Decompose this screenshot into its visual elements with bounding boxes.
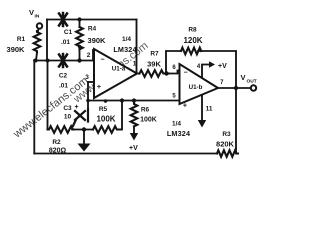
resistor R6: [131, 101, 138, 127]
svg-text:U1-a: U1-a: [112, 66, 126, 73]
node Vin terminal: [37, 23, 42, 28]
wire R5 riser: [121, 101, 123, 130]
junction dot ground node: [82, 127, 86, 131]
svg-text:R2: R2: [52, 139, 61, 146]
svg-text:R8: R8: [188, 27, 197, 34]
junction dot R5 riser top: [120, 98, 124, 102]
svg-text:V: V: [241, 73, 246, 82]
wire R1 bottom to node A: [36, 53, 37, 61]
svg-text:+: +: [97, 82, 102, 91]
svg-text:R5: R5: [99, 106, 108, 113]
svg-text:39K: 39K: [147, 60, 161, 69]
svg-text:LM324: LM324: [167, 129, 190, 138]
resistor R1: [34, 31, 41, 53]
svg-text:C2: C2: [59, 73, 68, 80]
wire Vin terminal to R1: [37, 29, 39, 31]
wire pin3 riser: [87, 82, 89, 116]
capacitor C3: [73, 110, 88, 127]
svg-text:IN: IN: [35, 14, 40, 20]
junction dot R6 top: [132, 98, 136, 102]
svg-text:R4: R4: [88, 26, 97, 33]
wire top horizontal: [47, 19, 137, 21]
junction dot bias wire left: [86, 99, 90, 103]
wire bias rail: [88, 100, 180, 102]
svg-text:+V: +V: [218, 63, 227, 70]
wire R8 right to output riser: [198, 51, 236, 88]
svg-text:390K: 390K: [7, 45, 26, 54]
svg-text:100K: 100K: [96, 115, 115, 124]
capacitor C2: [59, 54, 67, 67]
wire R6 bottom stem: [133, 127, 135, 135]
resistor R2: [48, 126, 75, 133]
junction dot R4 lead blob: [78, 45, 81, 48]
capacitor C1: [59, 13, 67, 26]
wire R4 top lead: [79, 20, 81, 28]
resistor R5: [93, 126, 121, 133]
wire top-loop left vertical: [46, 20, 48, 61]
wire left long vertical (node A to bottom rail): [33, 61, 35, 154]
node A junction dot left: [34, 59, 38, 63]
node A junction dot right: [46, 59, 50, 63]
svg-text:C3: C3: [63, 105, 72, 112]
arrow to +V (U1-b pin4): [209, 61, 215, 67]
wire pin11 stem: [201, 96, 203, 121]
svg-text:+: +: [183, 101, 188, 110]
junction dot output node: [234, 86, 238, 90]
node Vout terminal: [251, 85, 256, 90]
svg-text:100K: 100K: [140, 117, 157, 124]
svg-text:R1: R1: [17, 36, 26, 43]
svg-text:+V: +V: [129, 145, 138, 152]
svg-text:820Ω: 820Ω: [49, 148, 67, 155]
resistor R7: [140, 70, 169, 77]
wire U1-b output: [218, 87, 251, 89]
ground arrow stem: [83, 130, 85, 145]
wire top-loop right vertical (feedback C1 to output): [136, 20, 138, 73]
op-amp U1-b: [180, 64, 219, 104]
svg-text:OUT: OUT: [247, 79, 257, 85]
wire R2 right to ground junction: [72, 129, 93, 131]
wire node A horizontal: [34, 60, 93, 62]
arrow -V (pin11): [198, 120, 206, 128]
wire R8 riser: [166, 51, 181, 74]
wire U1-b +V stub: [202, 65, 210, 78]
svg-text:R6: R6: [141, 107, 150, 114]
svg-text:U1-b: U1-b: [189, 84, 203, 91]
wire junction to pin6 with jog: [167, 71, 181, 74]
svg-text:11: 11: [206, 106, 213, 113]
resistor R3: [217, 150, 238, 156]
svg-text:R3: R3: [222, 131, 231, 138]
ground arrow head: [78, 144, 91, 152]
svg-text:3: 3: [85, 74, 89, 81]
svg-text:10: 10: [64, 114, 72, 121]
wire pin3 stub: [88, 81, 94, 83]
svg-text:C1: C1: [64, 29, 73, 36]
svg-text:.01: .01: [61, 39, 70, 46]
wire R4 bottom to C2 wire: [79, 47, 81, 61]
wire output riser down to R3: [235, 88, 237, 154]
svg-text:R7: R7: [150, 51, 159, 58]
svg-text:LM324: LM324: [113, 45, 136, 54]
junction dot R7/R8/pin6: [164, 71, 168, 75]
svg-text:V: V: [29, 8, 34, 17]
op-amp U1-a: [94, 49, 137, 98]
svg-text:390K: 390K: [88, 36, 107, 45]
resistor R8: [181, 48, 201, 55]
wire R2 branch vertical: [47, 61, 49, 130]
resistor R4: [76, 27, 83, 49]
svg-text:2: 2: [87, 52, 91, 59]
junction dot R4 bottom: [77, 58, 81, 62]
svg-text:120K: 120K: [183, 36, 202, 45]
svg-text:1: 1: [133, 61, 137, 68]
svg-text:+: +: [74, 104, 78, 111]
svg-text:−: −: [183, 70, 187, 77]
svg-text:1/4: 1/4: [122, 36, 131, 43]
junction dot C1/R4 top: [77, 17, 81, 21]
wire bottom rail: [34, 153, 217, 155]
svg-text:1/4: 1/4: [172, 121, 181, 128]
wire U1-a output to R7: [137, 73, 140, 75]
svg-text:−: −: [100, 57, 104, 64]
label Vin: [7, 8, 257, 155]
svg-text:820K: 820K: [216, 140, 235, 149]
arrow to +V (bottom): [130, 133, 138, 141]
wire pin2 riser: [92, 50, 94, 61]
junction dot bias mid: [104, 99, 108, 103]
svg-text:.01: .01: [59, 83, 68, 90]
